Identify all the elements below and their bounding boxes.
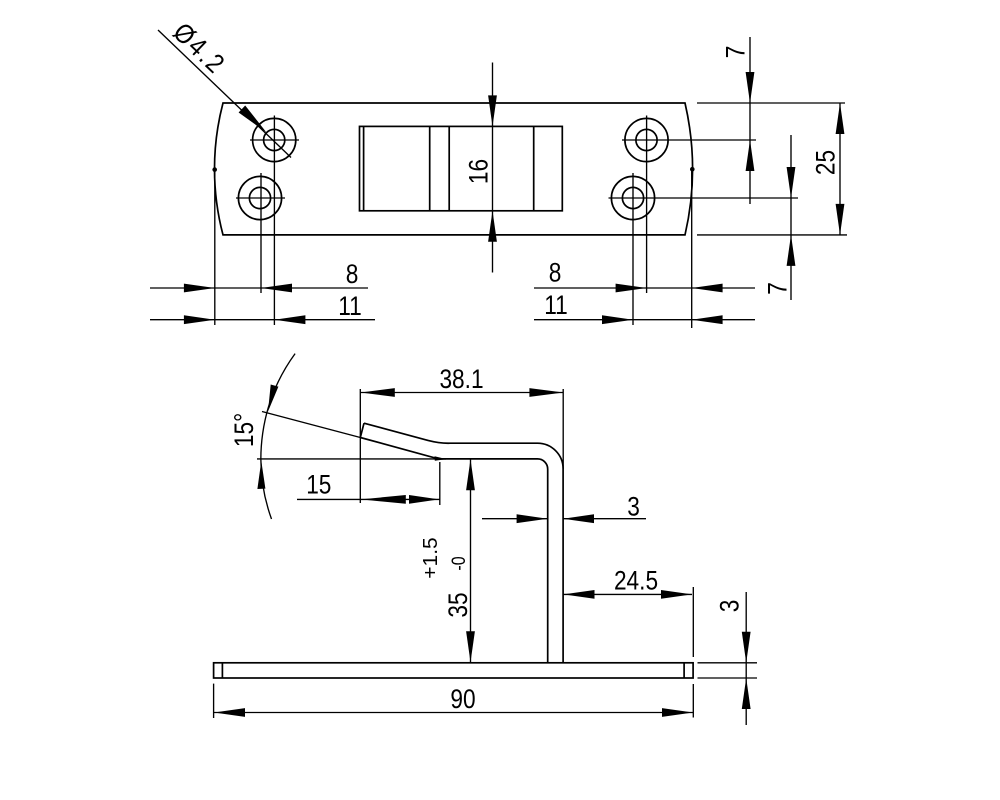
ext line lip tip <box>359 389 361 503</box>
dim 7 top upper arrow <box>746 72 755 103</box>
dim 7 bottom line <box>790 135 792 300</box>
base plate right end line <box>683 663 685 678</box>
svg-text:11: 11 <box>338 291 362 321</box>
dim 3 base bottom arrow <box>742 678 751 709</box>
centerline upper-right horizontal <box>622 139 756 141</box>
svg-text:35: 35 <box>443 592 473 617</box>
hole lower-right inner circle <box>622 187 643 208</box>
dim 8 right line <box>534 287 755 289</box>
leader arrowhead <box>239 106 267 133</box>
dim 16 line <box>492 63 494 273</box>
slot inner line b <box>429 126 431 210</box>
slot inner line d <box>533 126 535 210</box>
svg-text:-0: -0 <box>447 556 469 570</box>
dim 3 base top arrow <box>742 632 751 663</box>
dim 7 bottom upper arrow <box>787 167 796 198</box>
dim 11 left line <box>150 319 375 321</box>
svg-text:15: 15 <box>306 469 331 499</box>
angle arc upper arrow <box>268 385 278 412</box>
plate outline (top view) <box>214 103 692 235</box>
dim 90 left arrow <box>214 708 245 717</box>
dim 7 top line <box>749 37 751 204</box>
ext left arc vertical <box>214 171 216 325</box>
left arc midpoint dot <box>212 167 217 172</box>
dim 7 bottom lower arrow <box>787 235 796 266</box>
dim 25 top arrow <box>836 103 845 134</box>
svg-text:7: 7 <box>763 282 793 295</box>
dim 24.5 right arrow <box>661 590 692 599</box>
ext line 90 left <box>213 684 215 718</box>
svg-text:11: 11 <box>544 290 568 320</box>
dim 15 left arrow <box>361 495 406 504</box>
svg-text:90: 90 <box>450 684 475 714</box>
svg-text:+1.5: +1.5 <box>419 537 441 578</box>
dim 38.1 line <box>360 392 563 394</box>
svg-text:8: 8 <box>549 258 562 288</box>
dim 7 top lower arrow <box>746 140 755 171</box>
hole upper-left outer circle <box>253 118 296 161</box>
dim 3 base line <box>745 592 747 725</box>
latch slot rectangle <box>360 126 563 210</box>
dim 25 line <box>839 103 841 235</box>
leader line dia 4.2 <box>158 30 291 158</box>
angle tilted reference line <box>262 412 360 438</box>
dim 8 left arrow b <box>261 284 292 293</box>
dim 16 bottom arrow <box>488 211 497 242</box>
dim 3 post arrow a <box>517 514 548 523</box>
ext top edge right <box>697 102 845 104</box>
svg-text:7: 7 <box>721 46 751 59</box>
dim 11 right arrow a <box>602 315 633 324</box>
ext base top right <box>698 662 758 664</box>
ext line 15 right <box>439 462 441 505</box>
dim 3 post arrow b <box>563 514 594 523</box>
svg-text:16: 16 <box>463 159 493 184</box>
angle horizontal reference line <box>257 458 446 460</box>
hole lower-right outer circle <box>611 176 654 219</box>
hole upper-left inner circle <box>264 129 285 150</box>
dim 3 post line right <box>563 518 646 520</box>
centerline lower-left vertical <box>260 173 262 293</box>
dim 8 left arrow a <box>184 284 215 293</box>
dim 15 right arrow <box>409 495 439 504</box>
svg-text:8: 8 <box>346 259 359 289</box>
dim 8 right arrow b <box>692 284 723 293</box>
angle dimension arc <box>261 354 295 519</box>
slot inner line a <box>363 126 365 210</box>
ext line post right top <box>562 389 564 469</box>
ext line 24.5 right upper <box>692 587 694 657</box>
dim 38.1 left arrow <box>361 388 395 397</box>
dim 11 right arrow b <box>692 315 723 324</box>
svg-text:38.1: 38.1 <box>439 364 483 394</box>
base plate left end line <box>221 663 223 678</box>
hole upper-right outer circle <box>625 118 668 161</box>
slot inner line c <box>448 126 450 210</box>
svg-text:15°: 15° <box>229 413 259 447</box>
dim 25 bottom arrow <box>836 204 845 235</box>
dim 35 bottom arrow <box>466 631 475 662</box>
centerline upper-right vertical <box>646 116 648 294</box>
centerline lower-right horizontal <box>609 197 799 199</box>
dim 3 post line left <box>482 518 548 520</box>
bent bracket profile (side view) <box>360 423 563 663</box>
dim 24.5 left arrow <box>564 590 595 599</box>
dim 11 right line <box>534 319 755 321</box>
centerline lower-left horizontal <box>236 197 285 199</box>
right arc midpoint dot <box>690 167 695 172</box>
vertex dart <box>435 456 447 461</box>
ext base bottom right <box>698 677 758 679</box>
hole upper-right inner circle <box>636 129 657 150</box>
dim 24.5 line <box>564 593 693 595</box>
dim 11 left arrow a <box>184 315 215 324</box>
svg-text:3: 3 <box>627 492 640 522</box>
dim 90 line <box>214 712 693 714</box>
ext right arc vertical <box>691 171 693 328</box>
svg-text:25: 25 <box>811 150 841 175</box>
hole lower-left outer circle <box>238 176 281 219</box>
dim 8 right arrow a <box>616 284 647 293</box>
svg-text:24.5: 24.5 <box>614 566 658 596</box>
angle arc lower arrow <box>257 461 265 489</box>
dim 90 right arrow <box>662 708 693 717</box>
base plate outline <box>214 663 693 678</box>
ext line 24.5 right lower <box>692 684 694 718</box>
dim 35 line <box>470 459 472 662</box>
dim 11 left arrow b <box>274 315 305 324</box>
hole lower-left inner circle <box>249 187 270 208</box>
centerline upper-left vertical <box>273 116 275 326</box>
dim 8 left line <box>150 287 368 289</box>
svg-text:3: 3 <box>715 600 745 613</box>
dim 16 top arrow <box>488 95 497 126</box>
centerline lower-right vertical <box>632 173 634 325</box>
dim 15 line <box>297 498 440 500</box>
ext bottom edge right <box>697 234 847 236</box>
dim 38.1 right arrow <box>529 388 563 397</box>
centerline upper-left horizontal <box>250 139 299 141</box>
dim 35 top arrow <box>466 459 475 490</box>
